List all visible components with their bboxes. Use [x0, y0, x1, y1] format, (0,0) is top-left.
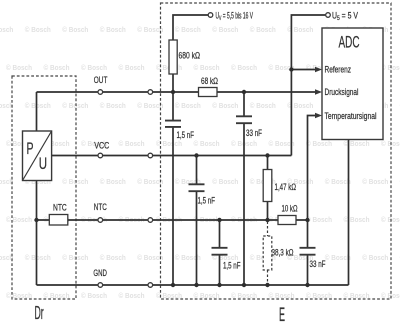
junction OUT/C4: [242, 90, 246, 94]
junction GND/C5: [305, 283, 309, 287]
label C5 33 nF: [310, 259, 326, 269]
capacitor C1 1,5 nF: [165, 121, 181, 127]
label 10 kOhm: [282, 204, 298, 214]
svg-text:Referenz: Referenz: [325, 65, 352, 75]
net GND wire: [37, 284, 349, 286]
capacitor C5 33 nF: [300, 248, 316, 255]
connector pin NTC left: [98, 218, 103, 223]
wire ADC ground lead: [348, 140, 350, 286]
junction NTC/R3/R5: [265, 218, 269, 222]
resistor R1 680 kOhm: [169, 40, 177, 74]
svg-text:1,5 nF: 1,5 nF: [223, 261, 241, 271]
pin label Drucksignal: [325, 87, 359, 97]
wire supply Uv rail: [173, 15, 208, 285]
label NTC (net): [94, 202, 107, 212]
label C1 1,5 nF: [177, 130, 195, 140]
junction GND/C3: [217, 283, 221, 287]
svg-text:1,5 nF: 1,5 nF: [177, 130, 195, 140]
label E: [279, 305, 285, 326]
label C3 1,5 nF: [223, 261, 241, 271]
junction VCC/C2: [194, 153, 198, 157]
svg-text:68 kΩ: 68 kΩ: [201, 76, 218, 86]
svg-text:680 kΩ: 680 kΩ: [179, 51, 201, 61]
sensor module enclosure Dr: [12, 76, 76, 299]
label Dr: [35, 303, 44, 323]
svg-text:UV = 5,5 bis 16 V: UV = 5,5 bis 16 V: [216, 11, 254, 23]
label C4 33 nF: [246, 128, 262, 138]
resistor R4 10 kOhm: [278, 216, 296, 225]
wire Referenz: [291, 69, 316, 71]
wire sensor OUT lead: [36, 92, 38, 131]
svg-text:NTC: NTC: [94, 202, 107, 212]
wire capacitor C3 branch: [219, 220, 221, 285]
svg-text:Temperatursignal: Temperatursignal: [325, 111, 377, 121]
svg-text:NTC: NTC: [53, 203, 67, 213]
label GND: [93, 268, 107, 278]
junction NTC/sensor lead: [34, 218, 38, 222]
svg-text:1,5 nF: 1,5 nF: [198, 196, 216, 206]
wire capacitor C2 branch: [196, 156, 198, 286]
arrow into ADC Drucksignal: [315, 89, 322, 95]
junction GND/C2: [194, 283, 198, 287]
wire supply U5 rail: [291, 15, 325, 156]
label NTC (resistor): [53, 203, 67, 213]
sensor element P/U: [23, 131, 52, 181]
ADC block U1: [322, 28, 383, 140]
svg-text:33 nF: 33 nF: [246, 128, 262, 138]
svg-text:P: P: [27, 140, 34, 158]
pin label Referenz: [325, 65, 352, 75]
capacitor C4 33 nF: [236, 116, 252, 123]
net VCC wire: [52, 155, 292, 157]
junction GND/C1: [171, 283, 175, 287]
junction NTC/C3: [217, 218, 221, 222]
junction NTC/R4/C5 temperature node: [305, 218, 309, 222]
arrow into ADC Temperatursignal: [315, 113, 322, 119]
junction VCC/R3: [265, 153, 269, 157]
resistor R5 38,3 kOhm (optional, dashed): [263, 236, 272, 270]
pin label Temperatursignal: [325, 111, 377, 121]
svg-text:38,3 kΩ: 38,3 kΩ: [272, 248, 294, 258]
resistor NTC: [49, 215, 68, 226]
arrow into ADC Referenz: [315, 67, 322, 73]
svg-text:VCC: VCC: [94, 141, 109, 151]
svg-text:Dr: Dr: [35, 303, 44, 323]
terminal Uv supply: [208, 13, 213, 18]
svg-text:ADC: ADC: [339, 34, 360, 52]
label 38,3 kOhm: [272, 248, 294, 258]
label VCC: [94, 141, 109, 151]
svg-text:E: E: [279, 305, 285, 326]
svg-text:33 nF: 33 nF: [310, 259, 326, 269]
label C2 1,5 nF: [198, 196, 216, 206]
wire sensor ground lead: [36, 181, 38, 286]
label Uv = 5,5 bis 16 V: [216, 11, 254, 23]
capacitor C2 1,5 nF: [189, 184, 205, 191]
junction GND/R5: [265, 283, 269, 287]
ECU module enclosure E: [161, 3, 392, 299]
resistor R2 68 kOhm: [199, 88, 218, 97]
label U5 = 5 V: [332, 11, 358, 23]
connector pin GND left: [98, 283, 103, 288]
svg-text:OUT: OUT: [94, 75, 108, 85]
connector pin VCC left: [98, 153, 103, 158]
svg-text:U5 = 5 V: U5 = 5 V: [332, 11, 358, 23]
connector pin NTC right: [148, 218, 153, 223]
label 1,47 kOhm: [275, 182, 297, 192]
junction Referenz/U5 rail: [289, 67, 293, 71]
junction OUT/R1: [171, 90, 175, 94]
junction GND/C4: [242, 283, 246, 287]
wire resistor R5 dashed leads: [267, 222, 269, 284]
label 68 kOhm: [201, 76, 218, 86]
svg-text:10 kΩ: 10 kΩ: [282, 204, 298, 214]
connector pin OUT right: [148, 90, 153, 95]
resistor R3 1,47 kOhm: [263, 170, 272, 202]
wire capacitor C4 branch: [243, 92, 245, 285]
svg-text:GND: GND: [93, 268, 107, 278]
capacitor C3 1,5 nF: [212, 248, 228, 255]
net OUT / Drucksignal wire: [37, 91, 317, 93]
svg-text:Drucksignal: Drucksignal: [325, 87, 359, 97]
wire temperature node branch: [308, 116, 317, 286]
net NTC wire: [37, 219, 308, 221]
connector pin OUT left: [98, 90, 103, 95]
connector pin VCC right: [148, 153, 153, 158]
connector pin GND right: [148, 283, 153, 288]
label OUT: [94, 75, 108, 85]
svg-text:U: U: [39, 155, 47, 173]
svg-text:1,47 kΩ: 1,47 kΩ: [275, 182, 297, 192]
label 680 kOhm: [179, 51, 201, 61]
wire resistor R3 branch: [267, 156, 269, 221]
terminal U5 supply: [326, 13, 331, 18]
